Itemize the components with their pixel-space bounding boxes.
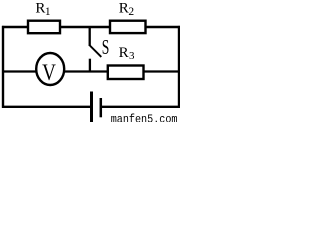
wire bottom left (to battery) bbox=[2, 106, 92, 108]
resistor R1 bbox=[28, 21, 60, 34]
switch S: lower stub bbox=[89, 59, 91, 72]
switch S: upper stub bbox=[89, 27, 91, 46]
svg-text:S: S bbox=[102, 35, 110, 59]
wire left edge bbox=[2, 26, 4, 108]
svg-text:2: 2 bbox=[128, 6, 134, 18]
battery long plate (left, positive) bbox=[90, 92, 93, 123]
resistor R2 bbox=[110, 21, 146, 33]
battery short plate (right, negative) bbox=[100, 98, 103, 117]
svg-text:R: R bbox=[119, 45, 129, 61]
svg-text:3: 3 bbox=[129, 50, 135, 62]
wire middle branch (voltmeter / R3 row) bbox=[2, 70, 179, 72]
voltmeter V (circle) bbox=[36, 53, 64, 85]
svg-text:manfen5.com: manfen5.com bbox=[111, 112, 178, 122]
wire right edge bbox=[178, 26, 180, 108]
svg-text:1: 1 bbox=[45, 6, 51, 18]
resistor R3 bbox=[108, 66, 144, 80]
wire top (left edge to right edge through R1,R2) bbox=[2, 26, 180, 28]
wire bottom right (from battery) bbox=[101, 106, 180, 108]
switch S: blade bbox=[90, 46, 101, 57]
svg-text:V: V bbox=[42, 60, 56, 85]
svg-text:R: R bbox=[119, 0, 129, 16]
